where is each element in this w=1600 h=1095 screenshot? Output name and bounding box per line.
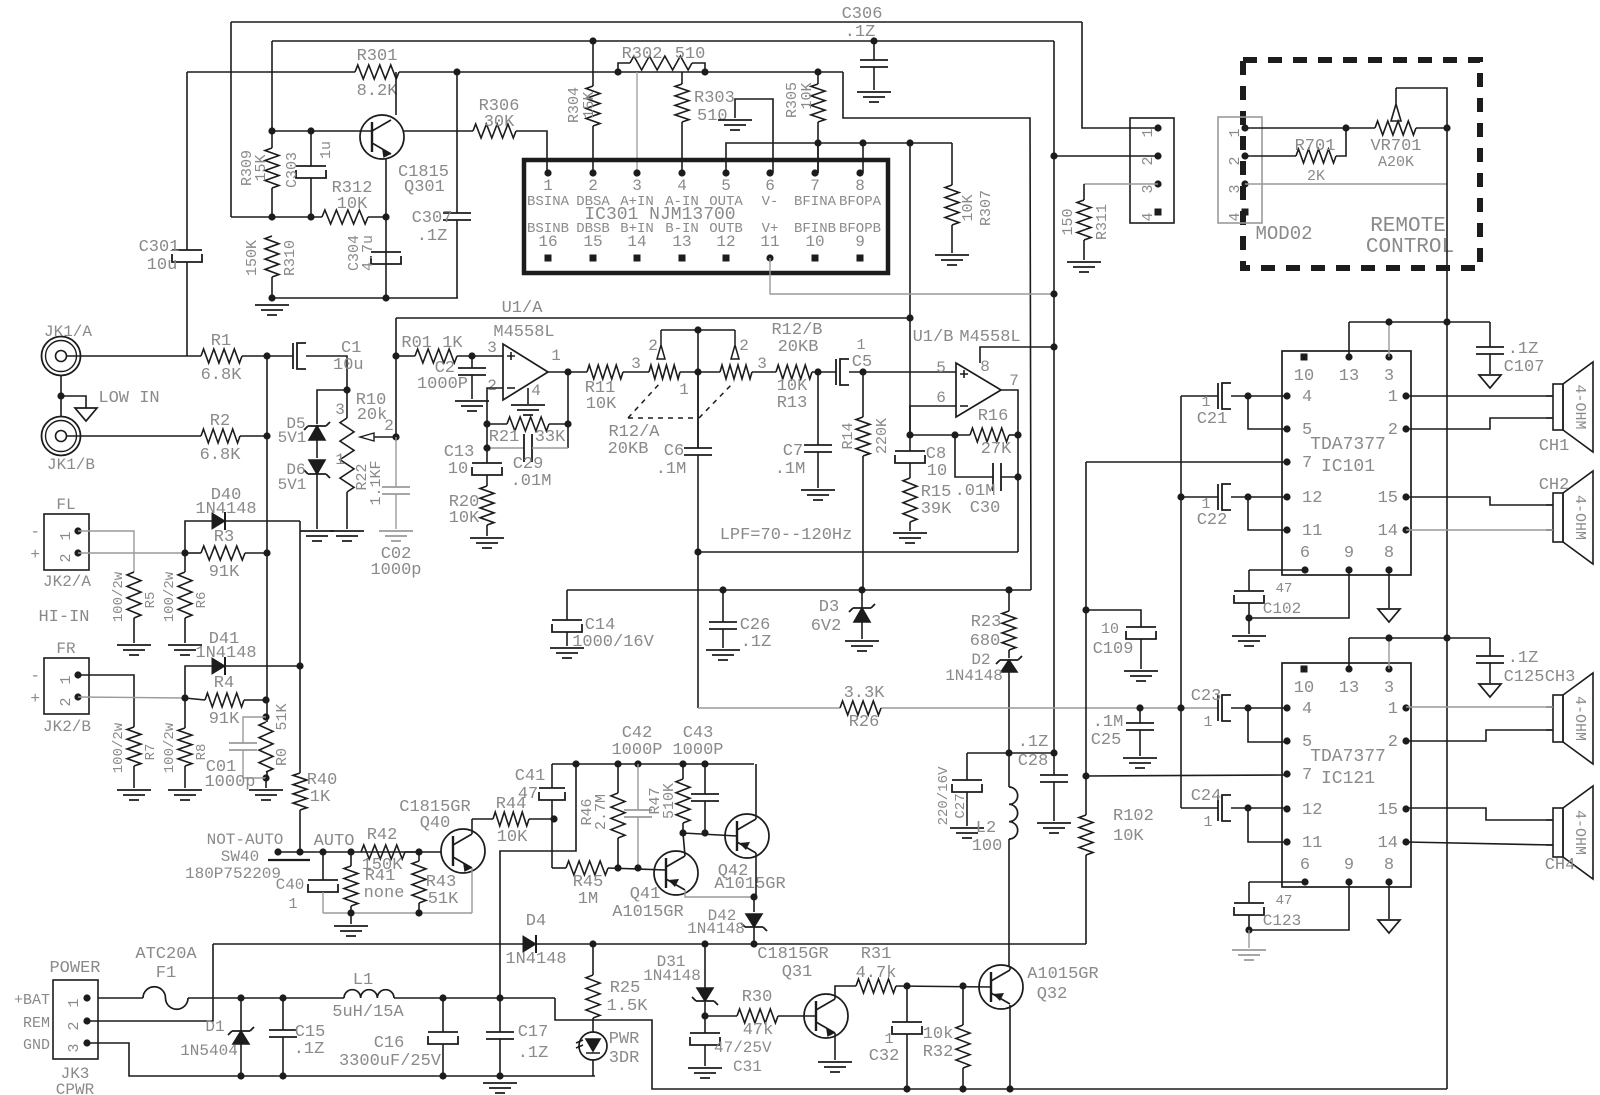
resistor R307 (951, 143, 953, 185)
node wiper bracket (694, 326, 701, 333)
capacitor C303 (310, 131, 312, 166)
svg-text:+: + (30, 546, 40, 564)
wire Q42 emitter up (755, 764, 757, 819)
wire Q32 collector up (1009, 966, 1011, 970)
wire remote pin1 line (1245, 127, 1375, 129)
wire Q40 emitter return (471, 868, 473, 913)
node fb right (564, 420, 571, 427)
svg-text:1: 1 (1140, 128, 1157, 137)
node R41 top (347, 848, 354, 855)
svg-text:510: 510 (675, 45, 706, 64)
node R32 top (959, 982, 966, 989)
ground R5 (117, 645, 151, 655)
wire bias drop x396 (395, 318, 397, 437)
capacitor C16 (442, 998, 444, 1032)
svg-text:REMOTE: REMOTE (1370, 215, 1446, 238)
capacitor C40 (322, 852, 324, 880)
node C2 top (468, 352, 475, 359)
svg-text:ATC20A: ATC20A (135, 945, 197, 964)
svg-text:Q41: Q41 (630, 885, 661, 904)
resistor R4 (185, 698, 205, 700)
resistor R13 (776, 365, 812, 379)
node C28 top (1050, 749, 1057, 756)
svg-text:D1: D1 (205, 1018, 224, 1036)
svg-text:R302: R302 (622, 45, 663, 64)
jack JK1/A (42, 337, 81, 376)
svg-text:A1015GR: A1015GR (612, 903, 683, 922)
resistor R15 (909, 463, 911, 478)
speaker CH2 (1553, 493, 1563, 542)
svg-text:3: 3 (632, 177, 642, 195)
wire IC121 out15 (1406, 808, 1553, 820)
svg-text:5uH/15A: 5uH/15A (332, 1003, 404, 1022)
svg-text:R2: R2 (210, 412, 230, 431)
wire inverting input (487, 388, 503, 424)
svg-text:1: 1 (335, 451, 345, 469)
svg-text:2: 2 (487, 377, 497, 395)
resistor R46 (611, 793, 625, 838)
resistor R43 (418, 852, 420, 861)
svg-text:.1Z: .1Z (417, 227, 448, 246)
capacitor C14 (566, 590, 568, 620)
svg-text:1000p: 1000p (204, 773, 255, 792)
wire remote pin3 (1245, 183, 1447, 185)
IC301 pin 1 (544, 169, 551, 176)
capacitor C8 (909, 435, 911, 451)
svg-text:39K: 39K (921, 500, 952, 519)
svg-text:R4: R4 (214, 674, 234, 693)
wire input bus x1181 (1180, 396, 1182, 808)
wire FR pin2 (78, 697, 185, 698)
svg-text:HI-IN: HI-IN (38, 608, 89, 627)
svg-text:2: 2 (1388, 733, 1398, 752)
svg-text:8: 8 (855, 177, 865, 195)
svg-text:4-OHM: 4-OHM (1571, 810, 1588, 855)
svg-text:.01M: .01M (511, 472, 552, 491)
ground R10 (330, 531, 364, 541)
capacitor C109 (1086, 610, 1141, 627)
node out (564, 368, 571, 375)
node x910 (906, 139, 913, 146)
wire C23 to pin5 (1248, 708, 1287, 742)
svg-text:.1M: .1M (656, 460, 687, 479)
dashed gang link R12 (628, 382, 734, 418)
svg-text:C107: C107 (1504, 358, 1545, 377)
svg-text:1000P: 1000P (417, 375, 468, 394)
node C43 top (701, 760, 708, 767)
connector MOD02 pin 2 (1241, 152, 1248, 159)
node R01 tap (392, 352, 399, 359)
ground C102 (1248, 618, 1250, 634)
svg-text:6: 6 (1300, 544, 1310, 563)
svg-text:10: 10 (448, 460, 468, 479)
svg-text:2: 2 (739, 337, 749, 355)
node R309 bottom (268, 213, 275, 220)
svg-text:+BAT: +BAT (14, 992, 50, 1009)
svg-text:6.8K: 6.8K (201, 366, 243, 385)
svg-text:.1Z: .1Z (741, 633, 772, 652)
node C6 low (694, 548, 701, 555)
svg-text:C40: C40 (276, 876, 305, 894)
node R47 bottom (679, 829, 686, 836)
wire U1/B inv input (910, 406, 956, 435)
capacitor C02 (395, 437, 397, 487)
svg-text:15K: 15K (253, 154, 270, 181)
svg-text:1N4148: 1N4148 (945, 667, 1003, 685)
svg-text:R0: R0 (274, 748, 291, 766)
capacitor C6 (697, 372, 699, 448)
ground R6 (168, 645, 202, 655)
ground IC121 pin8 arrow (1388, 882, 1390, 919)
capacitor C43 (704, 764, 706, 794)
wire pin9 tie (1249, 570, 1349, 618)
svg-text:C22: C22 (1197, 511, 1228, 530)
capacitor C01 (243, 717, 266, 743)
wire bias rail y590 (567, 589, 1031, 591)
svg-text:4-OHM: 4-OHM (1571, 495, 1588, 540)
capacitor C32 (906, 986, 908, 1022)
svg-text:150K: 150K (362, 856, 404, 875)
svg-text:M4558L: M4558L (959, 328, 1020, 347)
svg-text:REM: REM (23, 1015, 50, 1032)
svg-text:12: 12 (1302, 489, 1322, 508)
node R30 left (701, 1012, 708, 1019)
resistor R302 (618, 63, 630, 72)
capacitor C304 (371, 251, 401, 253)
capacitor C125 (1489, 638, 1491, 656)
ground C2 (455, 401, 489, 411)
svg-text:LPF=70--120Hz: LPF=70--120Hz (720, 526, 853, 545)
node R302 right (701, 68, 708, 75)
svg-text:2K: 2K (1307, 168, 1325, 185)
node C15 bottom (279, 1072, 286, 1079)
svg-text:V-: V- (762, 194, 779, 210)
wire Q31 collector (835, 986, 856, 999)
op-amp U1/A (503, 344, 548, 400)
wire Q301 emitter (385, 158, 387, 298)
resistor R14 (862, 372, 864, 417)
node pin3 rail121 (1385, 634, 1392, 641)
svg-text:R7: R7 (143, 744, 159, 761)
IC301 pin 6 (766, 169, 773, 176)
capacitor C2 (471, 356, 473, 368)
wire IC101 Vs rail (1348, 322, 1350, 357)
svg-text:5: 5 (936, 359, 946, 377)
svg-text:6: 6 (1300, 856, 1310, 875)
svg-text:NOT-AUTO: NOT-AUTO (207, 831, 284, 849)
ground R7 (117, 790, 151, 800)
connector JK2/B box (44, 658, 89, 714)
node pin2 feed (1050, 152, 1057, 159)
capacitor C7 (817, 372, 819, 445)
inductor L2 (1008, 753, 1010, 787)
svg-text:100: 100 (972, 837, 1003, 856)
svg-text:2: 2 (58, 697, 75, 706)
jack JK1/B (42, 417, 81, 456)
svg-text:100/2w: 100/2w (111, 571, 127, 622)
svg-text:.1M: .1M (1093, 713, 1124, 732)
resistor R30 (705, 1015, 737, 1017)
ground R15 (893, 533, 927, 543)
node D1 bottom (237, 1072, 244, 1079)
svg-text:3: 3 (335, 401, 345, 419)
wire REM rail y944 (213, 943, 1086, 945)
svg-text:AUTO: AUTO (314, 832, 355, 851)
wire Q42 collector down (755, 853, 757, 897)
IC IC121 TDA7377 (1282, 663, 1411, 887)
svg-text:6: 6 (765, 177, 775, 195)
svg-text:3: 3 (1384, 679, 1394, 698)
resistor R312 (322, 210, 368, 224)
potentiometer VR701 (1375, 121, 1416, 135)
svg-text:680: 680 (970, 632, 1001, 651)
svg-text:3: 3 (66, 1043, 83, 1052)
svg-text:Q32: Q32 (1037, 985, 1068, 1004)
wire IC101 pin3 stub (1388, 322, 1390, 357)
svg-text:10: 10 (805, 233, 824, 251)
resistor R309 (271, 131, 273, 148)
node C102 bottom (1245, 614, 1252, 621)
wire Q40 collector (471, 819, 473, 834)
node Q42 col (750, 893, 757, 900)
svg-text:150: 150 (1060, 208, 1077, 235)
svg-text:MOD02: MOD02 (1255, 223, 1312, 245)
svg-text:16: 16 (538, 233, 557, 251)
svg-text:R21: R21 (489, 428, 520, 447)
svg-text:R310: R310 (282, 240, 299, 276)
wire fb vertical (567, 372, 569, 448)
resistor R6 (184, 553, 186, 572)
svg-text:7: 7 (1009, 372, 1019, 390)
svg-text:10u: 10u (333, 356, 364, 375)
wire left drop x231 (230, 22, 232, 217)
connector JK2/A box (44, 514, 89, 570)
svg-text:JK2/B: JK2/B (43, 718, 91, 736)
wire IC101 out14 (1406, 529, 1553, 531)
ground U1/A pin4 (527, 388, 529, 404)
svg-text:1M: 1M (578, 890, 598, 909)
svg-text:11: 11 (1302, 834, 1322, 853)
wire pin3 bias (636, 72, 638, 173)
svg-text:R13: R13 (777, 394, 808, 413)
resistor R102 (1079, 815, 1093, 855)
resistor R01 (396, 355, 415, 357)
node C16 top (439, 994, 446, 1001)
node R23 (1005, 586, 1012, 593)
svg-text:C6: C6 (664, 442, 684, 461)
wire supply step to right rail (555, 998, 1447, 1089)
svg-text:C21: C21 (1197, 410, 1228, 429)
node R16 right (1014, 431, 1021, 438)
wire input sum vertical x267 (266, 356, 268, 722)
svg-text:220/16V: 220/16V (936, 766, 952, 825)
resistor R310 (265, 236, 279, 277)
svg-text:1.1KF: 1.1KF (368, 460, 385, 505)
node Q40 base (415, 848, 422, 855)
svg-text:100/2w: 100/2w (162, 571, 178, 622)
wire IC101 pin7 stby (1086, 461, 1287, 463)
resistor R8 (184, 698, 186, 728)
ground C14 (550, 648, 584, 658)
ground R311 (1067, 262, 1101, 272)
svg-text:12: 12 (1302, 801, 1322, 820)
svg-text:A1015GR: A1015GR (714, 875, 785, 894)
svg-text:JK2/A: JK2/A (43, 573, 91, 591)
svg-text:4: 4 (1227, 212, 1244, 221)
node pin8 stub (859, 139, 866, 146)
svg-text:A1015GR: A1015GR (1027, 965, 1098, 984)
speaker CH4 (1553, 808, 1563, 857)
svg-text:D4: D4 (526, 912, 546, 931)
svg-text:1000P: 1000P (611, 741, 662, 760)
wire pin7 stub (817, 143, 819, 173)
wire connector pin2 feed (1054, 155, 1158, 157)
resistor R701 (1245, 155, 1296, 157)
capacitor C28 (1053, 753, 1055, 775)
resistor R306 (404, 130, 473, 132)
resistor R1 (66, 355, 201, 357)
IC301 pin 8 (856, 169, 863, 176)
svg-text:F1: F1 (156, 964, 176, 983)
svg-text:4: 4 (1302, 388, 1312, 407)
svg-text:1: 1 (66, 998, 83, 1007)
diode D1 zener (240, 998, 242, 1031)
resistor R20 (480, 486, 494, 525)
node C24 out (1244, 804, 1251, 811)
svg-text:2: 2 (66, 1021, 83, 1030)
node C32 bot (903, 1085, 910, 1092)
switch SW40 (274, 848, 281, 855)
node R3 out (263, 549, 270, 556)
node R305 bottom (814, 139, 821, 146)
capacitor C24 (1181, 807, 1218, 809)
svg-text:13: 13 (1339, 679, 1359, 698)
svg-text:CONTROL: CONTROL (1366, 236, 1454, 259)
ground C27 (950, 828, 984, 838)
svg-text:4-OHM: 4-OHM (1571, 384, 1588, 429)
node fb left (483, 420, 490, 427)
svg-text:1000/16V: 1000/16V (572, 633, 654, 652)
svg-text:.1Z: .1Z (845, 23, 876, 42)
svg-text:U1/B: U1/B (913, 328, 954, 347)
svg-text:2: 2 (58, 553, 75, 562)
svg-text:R1: R1 (211, 332, 231, 351)
ground D6 (300, 531, 334, 541)
node emitter-R312 (382, 213, 389, 220)
wire GND riser (87, 1043, 595, 1076)
node R701 top (1342, 124, 1349, 131)
svg-text:1: 1 (551, 347, 561, 365)
svg-text:C25: C25 (1091, 731, 1122, 750)
svg-text:.1M: .1M (775, 460, 806, 479)
capacitor C21 (1181, 395, 1218, 397)
wire connector pin1 feed (1082, 22, 1158, 128)
svg-text:1000p: 1000p (370, 561, 421, 580)
JK3 pin1 (83, 994, 90, 1001)
ground C306 (857, 92, 891, 102)
svg-text:14: 14 (1378, 522, 1398, 541)
node R1 (263, 352, 270, 359)
svg-text:100/2w: 100/2w (162, 722, 178, 773)
pot wipers tie (657, 330, 665, 359)
capacitor C23 (1217, 695, 1219, 721)
resistor R303 (681, 72, 683, 84)
svg-text:M4558L: M4558L (493, 323, 554, 342)
svg-text:10K: 10K (799, 82, 816, 109)
svg-text:R301: R301 (357, 47, 398, 66)
svg-text:10K: 10K (586, 395, 617, 414)
ground R310 (255, 305, 289, 315)
svg-text:3.3K: 3.3K (844, 684, 886, 703)
svg-text:IC121: IC121 (1321, 769, 1375, 789)
svg-text:3: 3 (631, 355, 641, 373)
node Q32 bot (1006, 1085, 1013, 1092)
wire U1/B pin8 (980, 347, 1054, 363)
node y318 (906, 314, 913, 321)
svg-text:R30: R30 (742, 988, 773, 1007)
capacitor C15 (282, 998, 284, 1030)
svg-text:47: 47 (518, 785, 538, 804)
resistor R7 (127, 727, 141, 766)
resistor R26 (840, 701, 881, 715)
svg-text:BFOPA: BFOPA (839, 194, 882, 210)
wire pin9 tie 121 (1249, 882, 1349, 930)
svg-text:1000P: 1000P (672, 741, 723, 760)
node C1 out (343, 386, 350, 393)
svg-text:C30: C30 (970, 499, 1001, 518)
svg-text:R5: R5 (143, 592, 159, 609)
svg-text:1: 1 (1388, 388, 1398, 407)
wire x1054 main drop (1053, 41, 1055, 753)
diode D5 zener (317, 390, 347, 424)
svg-text:2: 2 (1388, 421, 1398, 440)
wire IC121 pin7 (1086, 775, 1287, 776)
svg-text:20KB: 20KB (778, 338, 819, 357)
resistor R2 (66, 435, 201, 437)
svg-text:4: 4 (677, 177, 687, 195)
svg-text:1: 1 (58, 531, 75, 540)
ground C109 (1124, 671, 1158, 681)
svg-text:10: 10 (1294, 367, 1314, 386)
svg-text:R23: R23 (971, 613, 1002, 632)
VR701 wiper (1391, 88, 1401, 121)
svg-text:15K: 15K (581, 91, 598, 118)
ground C7 (801, 490, 835, 500)
resistor R32 (962, 986, 964, 1025)
capacitor C1 (267, 355, 293, 357)
node pot mid (694, 368, 701, 375)
node C21 out (1244, 392, 1251, 399)
wire U1/A output (548, 371, 587, 373)
svg-text:47/25V: 47/25V (714, 1039, 772, 1057)
wire REM riser (87, 944, 213, 1021)
svg-text:5V1: 5V1 (278, 476, 307, 494)
node C23 out (1244, 704, 1251, 711)
svg-text:30K: 30K (484, 113, 515, 132)
svg-text:CH1: CH1 (1539, 437, 1570, 456)
ground IC301 V- (735, 99, 773, 173)
svg-text:7: 7 (1302, 766, 1312, 785)
node R46 bottom (614, 864, 621, 871)
connector MOD02 pin 1 (1241, 124, 1248, 131)
IC301 pin 3 (633, 169, 640, 176)
node R310 bottom (268, 294, 275, 301)
resistor R31 (856, 979, 896, 993)
svg-text:15: 15 (583, 233, 602, 251)
node C304 bottom (382, 294, 389, 301)
svg-text:.1Z: .1Z (1508, 340, 1539, 359)
svg-text:BFINA: BFINA (794, 194, 837, 210)
